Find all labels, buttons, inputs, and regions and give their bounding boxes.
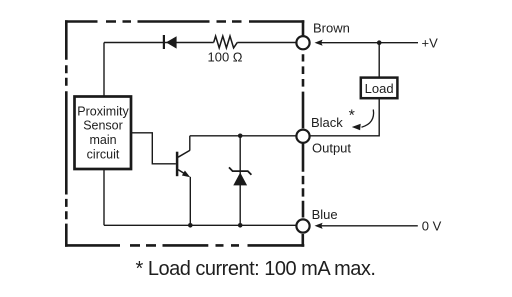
- wire: +V junction down to load: [378, 43, 380, 78]
- annotation: curved arrow to output wire: [352, 110, 374, 131]
- diode D1 arrow (pointing left): [166, 36, 177, 48]
- wire: emitter down to 0V rail: [189, 177, 191, 226]
- svg-text:Proximity: Proximity: [77, 104, 129, 118]
- junction: zener bottom: [238, 223, 243, 228]
- svg-text:*: *: [349, 108, 355, 125]
- svg-text:circuit: circuit: [87, 148, 120, 162]
- svg-text:Blue: Blue: [312, 207, 338, 222]
- terminal: Brown: [296, 36, 309, 49]
- svg-text:Brown: Brown: [313, 21, 350, 36]
- svg-text:0 V: 0 V: [422, 219, 442, 234]
- transistor Q1 base bar: [176, 152, 179, 177]
- diode D1 cathode bar: [163, 35, 165, 49]
- wire: 0V line: [321, 225, 418, 227]
- junction: zener top: [238, 134, 243, 139]
- sensor enclosure dashed border: left edge: [65, 20, 68, 247]
- sensor enclosure dashed border: bottom edge: [65, 244, 304, 247]
- wire: 0V rail to Blue terminal: [104, 224, 296, 226]
- zener diode ZD1 cathode bar with bent tails: [229, 167, 251, 174]
- arrow into Brown terminal: [315, 40, 323, 46]
- terminal: Blue: [296, 219, 309, 232]
- sensor enclosure dashed border: top edge: [65, 20, 304, 23]
- svg-text:Output: Output: [312, 141, 351, 156]
- wire: collector up to output rail: [189, 136, 191, 151]
- wire: load to Black terminal: [311, 99, 380, 136]
- wire: drop from top rail into proximity box: [103, 43, 105, 97]
- transistor Q1 emitter stroke with arrow: [178, 170, 190, 178]
- svg-text:main: main: [89, 133, 116, 147]
- svg-text:* Load current: 100 mA max.: * Load current: 100 mA max.: [136, 258, 376, 280]
- wire: +V supply line: [321, 42, 418, 44]
- transistor Q1 collector stroke: [178, 150, 190, 157]
- proximity sensor main circuit block: [75, 97, 132, 170]
- svg-text:Black: Black: [311, 115, 343, 130]
- zener diode ZD1 wire: [239, 136, 241, 226]
- wire: proximity box output to transistor base: [132, 133, 176, 164]
- resistor R1 zigzag: [214, 36, 238, 48]
- junction: emitter at 0V rail: [188, 223, 193, 228]
- arrow into Blue terminal: [315, 223, 323, 229]
- svg-text:Sensor: Sensor: [83, 119, 123, 133]
- sensor enclosure dashed border: right edge: [301, 20, 304, 247]
- svg-text:100 Ω: 100 Ω: [207, 50, 242, 65]
- wire: drop from proximity box bottom to 0V rail: [103, 169, 105, 225]
- junction: load branch on +V line: [377, 40, 382, 45]
- wire: top rail from internal node to Brown terminal: [104, 42, 296, 44]
- svg-text:Load: Load: [365, 81, 394, 96]
- zener diode ZD1 anode triangle (pointing up): [233, 173, 247, 186]
- terminal: Black: [296, 130, 309, 143]
- wire: output rail from collector to Black terminal: [190, 135, 296, 137]
- svg-text:+V: +V: [422, 36, 439, 51]
- load box: [361, 78, 398, 99]
